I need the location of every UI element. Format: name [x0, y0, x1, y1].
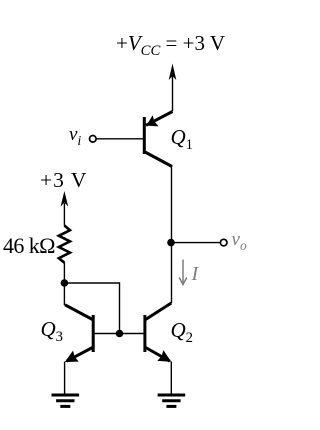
label Q1 — [171, 125, 194, 154]
label 46 kOhm — [3, 233, 55, 259]
node C junction dot (output) — [167, 239, 175, 247]
Q3 emitter arrowhead — [65, 351, 79, 362]
Q1 collector lead — [145, 152, 172, 167]
Q3 collector lead — [65, 305, 93, 320]
resistor R1 46k zigzag — [59, 226, 70, 263]
power arrow +3V — [61, 191, 69, 207]
label I (gray) — [192, 263, 199, 286]
wire VCC arrow shaft — [172, 76, 174, 111]
wire Q3 base to Q2 base — [93, 333, 143, 335]
transistor Q2 (NPN) — [145, 303, 171, 362]
wire output node to vo terminal — [171, 242, 220, 244]
Q3 emitter lead — [67, 348, 93, 362]
wire vi to Q1 base — [96, 138, 143, 140]
wire resistor bottom to node A — [63, 263, 65, 284]
wire +3V arrow shaft to resistor — [63, 203, 65, 226]
wire Q2 emitter to ground — [170, 362, 172, 395]
transistor Q3 (NPN diode-connected, mirrored) — [65, 305, 93, 362]
ground (left, Q3 emitter) — [52, 395, 80, 406]
Q1 emitter arrowhead — [146, 115, 158, 126]
transistor Q1 (PNP) — [144, 112, 172, 167]
Q2 bar — [143, 315, 146, 352]
Q2 emitter arrowhead — [157, 350, 171, 362]
label +VCC = +3 V — [116, 31, 225, 60]
power arrow VCC — [169, 64, 177, 81]
wire Q1 collector rail down to Q2 collector — [171, 166, 173, 303]
Q2 collector lead — [146, 303, 172, 320]
wire Q3 collector vertical — [63, 283, 65, 305]
label Q2 — [171, 318, 194, 347]
ground (right, Q2 emitter) — [158, 395, 186, 406]
label vi — [69, 124, 81, 149]
label +3 V — [40, 168, 87, 193]
label vo (gray) — [232, 229, 247, 254]
terminal vi open circle — [90, 136, 97, 143]
Q3 bar — [92, 315, 95, 352]
Q1 emitter lead — [146, 112, 173, 126]
label Q3 — [41, 317, 64, 346]
node A junction dot (resistor bottom) — [61, 279, 69, 287]
Q2 emitter lead — [146, 348, 170, 362]
wire node A to corner — [64, 283, 119, 334]
terminal vo open circle — [220, 239, 227, 246]
wire Q3 emitter to ground — [64, 362, 66, 395]
Q1 bar — [143, 117, 146, 154]
node B junction dot (base rail) — [116, 330, 124, 338]
current arrow I (gray) — [179, 260, 187, 285]
